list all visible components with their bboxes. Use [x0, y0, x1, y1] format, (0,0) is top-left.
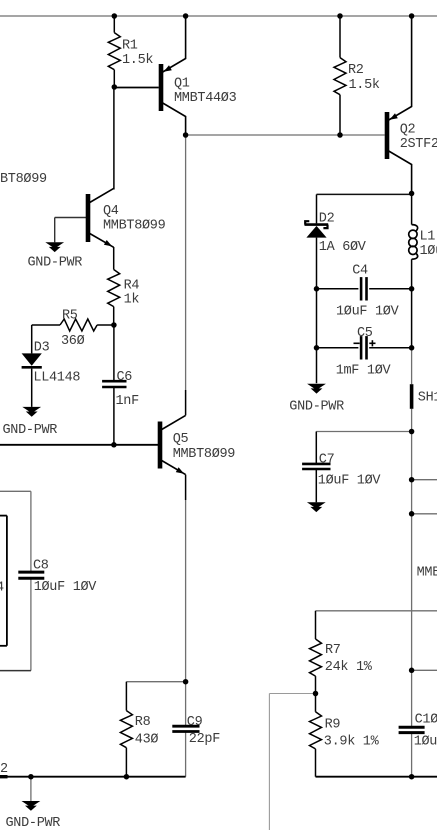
- svg-text:2STF255Ø: 2STF255Ø: [400, 137, 437, 152]
- svg-text:1A 6ØV: 1A 6ØV: [319, 240, 367, 255]
- svg-text:Q1: Q1: [174, 77, 190, 92]
- svg-text:Q5: Q5: [173, 432, 189, 447]
- svg-text:D2: D2: [319, 212, 335, 227]
- svg-text:C7: C7: [319, 452, 335, 467]
- svg-text:R7: R7: [325, 643, 341, 658]
- svg-text:R2: R2: [348, 63, 364, 78]
- svg-text:MMBT8Ø99: MMBT8Ø99: [173, 447, 236, 462]
- svg-text:Q2: Q2: [400, 123, 416, 138]
- svg-text:R8: R8: [135, 715, 151, 730]
- svg-text:36Ø: 36Ø: [61, 334, 85, 349]
- svg-text:GND-PWR: GND-PWR: [28, 256, 83, 271]
- svg-text:22pF: 22pF: [189, 732, 220, 747]
- svg-text:GND-PWR: GND-PWR: [6, 816, 61, 830]
- svg-text:2: 2: [0, 762, 8, 777]
- svg-text:1ØuF 1ØV: 1ØuF 1ØV: [336, 305, 400, 320]
- svg-text:MMBT44Ø3: MMBT44Ø3: [174, 91, 237, 106]
- svg-text:GND-PWR: GND-PWR: [3, 423, 58, 438]
- svg-text:43Ø: 43Ø: [135, 733, 159, 748]
- svg-text:4: 4: [0, 581, 4, 596]
- svg-text:R9: R9: [325, 717, 341, 732]
- svg-text:1ØuF 1ØV: 1ØuF 1ØV: [414, 734, 437, 749]
- svg-text:L1: L1: [420, 229, 436, 244]
- svg-text:1mF 1ØV: 1mF 1ØV: [336, 364, 392, 379]
- svg-text:LL4148: LL4148: [33, 371, 80, 386]
- svg-text:C6: C6: [117, 370, 133, 385]
- svg-text:R5: R5: [62, 309, 78, 324]
- svg-text:GND-PWR: GND-PWR: [289, 400, 344, 415]
- svg-text:C1Ø: C1Ø: [415, 712, 437, 727]
- svg-text:1k: 1k: [124, 292, 140, 307]
- svg-text:C9: C9: [187, 715, 203, 730]
- svg-text:MMBT8Ø99: MMBT8Ø99: [103, 219, 166, 234]
- svg-text:C5: C5: [357, 326, 373, 341]
- svg-text:R4: R4: [124, 278, 140, 293]
- svg-text:1ØuF 1ØV: 1ØuF 1ØV: [318, 474, 382, 489]
- svg-text:MMBT8Ø99: MMBT8Ø99: [417, 566, 437, 581]
- svg-text:C8: C8: [33, 558, 49, 573]
- svg-text:3.9k 1%: 3.9k 1%: [324, 735, 380, 750]
- svg-text:Q4: Q4: [103, 204, 119, 219]
- svg-text:1.5k: 1.5k: [122, 53, 153, 68]
- svg-text:24k 1%: 24k 1%: [325, 660, 373, 675]
- svg-text:1ØuH: 1ØuH: [420, 244, 437, 259]
- svg-text:C4: C4: [352, 264, 368, 279]
- svg-text:BT8Ø99: BT8Ø99: [0, 172, 47, 187]
- svg-text:1ØuF 1ØV: 1ØuF 1ØV: [34, 580, 98, 595]
- svg-text:1.5k: 1.5k: [349, 78, 380, 93]
- svg-text:R1: R1: [122, 39, 138, 54]
- svg-text:1nF: 1nF: [116, 394, 140, 409]
- svg-text:D3: D3: [34, 341, 50, 356]
- svg-text:SH1: SH1: [418, 390, 437, 405]
